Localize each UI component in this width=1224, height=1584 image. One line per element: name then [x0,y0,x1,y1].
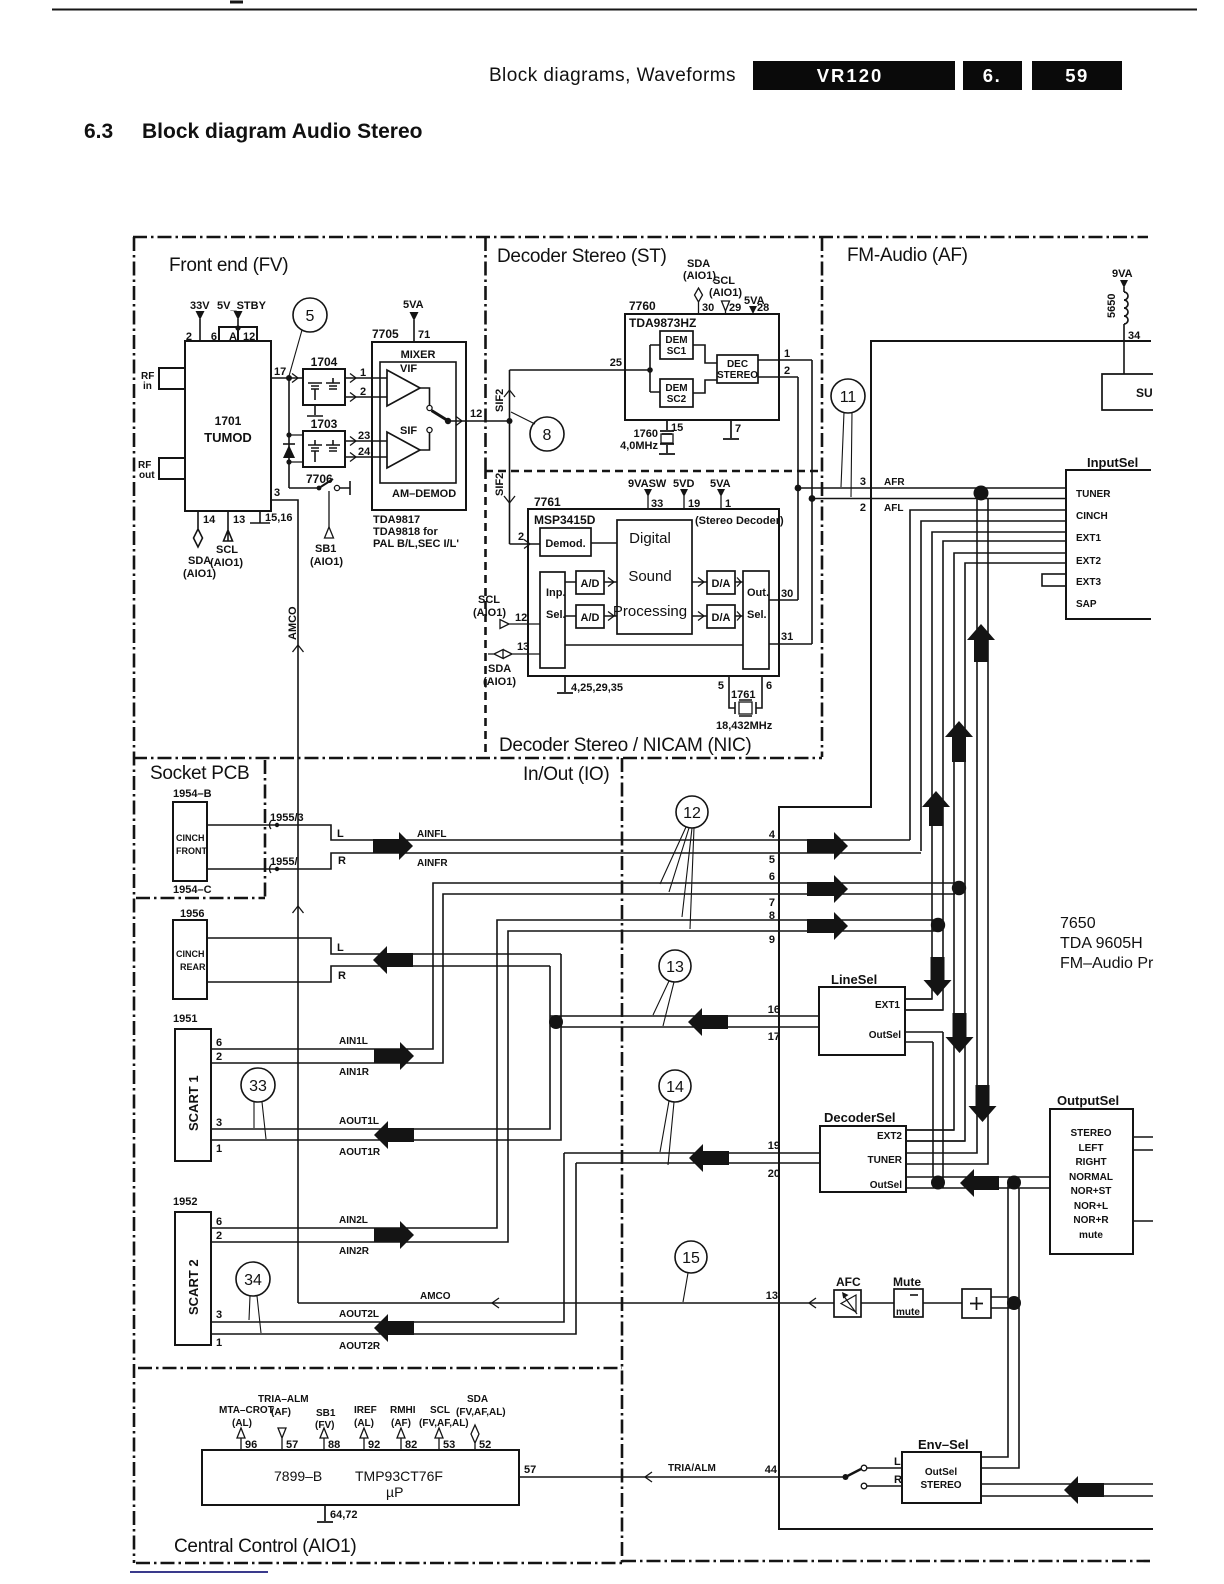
svg-text:57: 57 [286,1439,298,1451]
arrow AIN1 pair right [374,1042,414,1070]
wires plus to colF [991,1297,1019,1308]
svg-text:13: 13 [233,514,245,526]
block border Socket PCB bottom [136,897,265,900]
svg-text:EXT2: EXT2 [1076,556,1101,567]
svg-text:Digital: Digital [629,530,671,547]
wires OutputSel right stubs [1133,1137,1153,1221]
sub-block OutputSel [1050,1109,1133,1254]
wires DSP to D/A to Out.Sel [692,582,743,616]
svg-text:VIF: VIF [400,363,417,375]
svg-text:(FV,AF,AL): (FV,AF,AL) [456,1407,506,1418]
sub-block DSP [617,520,692,634]
wire TDA9873 pin2 out [758,376,798,378]
svg-text:2: 2 [518,531,524,543]
svg-text:(FV,AF,AL): (FV,AF,AL) [419,1418,469,1429]
svg-text:SCART 1: SCART 1 [186,1075,201,1131]
svg-text:PAL B/L,SEC I/L': PAL B/L,SEC I/L' [373,538,459,550]
svg-text:17: 17 [274,366,286,378]
wire node17 down to diode branch [288,378,290,488]
svg-text:NORMAL: NORMAL [1069,1172,1113,1183]
svg-text:33: 33 [249,1078,267,1095]
svg-text:6.: 6. [983,65,1001,86]
svg-text:7650: 7650 [1060,915,1096,932]
wire AOUT1L (pin3) [211,966,550,1129]
svg-text:AFC: AFC [836,1275,861,1289]
wire col-A cinch pair (AINF up to InputSel CINCH) [910,510,1066,840]
callout 8 [530,417,564,451]
pin 13 SDA(AIO1) [488,650,540,659]
svg-text:1955/: 1955/ [270,856,298,868]
svg-text:4,0MHz: 4,0MHz [620,440,658,452]
svg-text:7760: 7760 [629,299,656,313]
sub-block LineSel [819,987,905,1055]
svg-text:1: 1 [360,367,366,379]
pin15 crystal 1760 4,0MHz [659,420,675,454]
svg-text:1704: 1704 [311,355,338,369]
svg-text:7: 7 [735,423,741,435]
sub-block A/D upper [576,571,604,594]
svg-text:5650: 5650 [1106,294,1118,318]
svg-text:1: 1 [216,1337,222,1349]
svg-text:AFR: AFR [884,477,905,488]
sub-block DEM SC2 [660,379,693,407]
wire 1703 to SIF pin24 [345,456,387,458]
svg-text:44: 44 [765,1464,778,1476]
svg-text:(AF): (AF) [391,1418,411,1429]
sub-block D/A upper [707,571,735,594]
header badge VR120 [753,61,955,90]
node AIN2 join col-B [931,918,945,932]
block border Central Control bottom [136,1562,622,1565]
supply sub-block SU.. [1102,374,1153,410]
arrow AIN2 pair right [374,1221,414,1249]
svg-text:5VA: 5VA [403,299,424,311]
svg-text:FM–Audio Pr: FM–Audio Pr [1060,955,1154,972]
wire Sel control bus [565,644,743,646]
node AFL tap [809,495,816,502]
wire AIN2R (pin2) [211,931,938,1242]
callout 13 [659,950,691,982]
svg-text:18,432MHz: 18,432MHz [716,720,773,732]
wire AOUT2L (pin3) [211,1153,564,1322]
svg-text:4: 4 [769,829,776,841]
svg-text:6: 6 [216,1037,222,1049]
wire TUMOD pin17 to 1704 [271,377,303,379]
svg-text:DEM: DEM [665,383,687,394]
svg-text:13: 13 [766,1290,778,1302]
svg-text:16: 16 [768,1004,780,1016]
svg-text:STEREO: STEREO [1070,1128,1111,1139]
svg-text:30: 30 [781,588,793,600]
node AIN1 join col-C [952,881,966,895]
arrow down col-B [924,957,952,996]
uP pin 82 RMHI (AF) [397,1428,405,1450]
svg-text:LEFT: LEFT [1079,1143,1104,1154]
svg-text:7706: 7706 [306,472,333,486]
svg-text:(AIO1): (AIO1) [183,568,216,580]
svg-text:mute: mute [1079,1230,1103,1241]
svg-text:SC1: SC1 [667,346,687,357]
svg-text:15,16: 15,16 [265,512,293,524]
wire LineSel pins 16/17 rows [550,1015,819,1017]
svg-text:20: 20 [768,1168,780,1180]
svg-text:7761: 7761 [534,495,561,509]
svg-text:MSP3415D: MSP3415D [534,513,596,527]
arrow rows16/17 left [688,1008,728,1036]
block border ST/AF boundary [821,237,824,757]
arrow up col-C [945,721,973,762]
svg-text:64,72: 64,72 [330,1509,358,1521]
svg-text:1951: 1951 [173,1013,197,1025]
svg-text:SDA: SDA [488,663,511,675]
svg-text:SB1: SB1 [316,1408,336,1419]
switch Env-Sel input [867,1468,902,1486]
wire col-D tuner pair down to DecoderSel [906,488,977,1153]
svg-text:SCL: SCL [713,275,735,287]
svg-text:AIN1L: AIN1L [339,1036,368,1047]
svg-text:SDA: SDA [188,555,211,567]
arrow up col-B [922,791,950,826]
svg-text:AOUT1L: AOUT1L [339,1116,379,1127]
svg-text:33V: 33V [190,300,210,312]
svg-text:SCL: SCL [216,544,238,556]
svg-text:24: 24 [358,446,371,458]
wire SIF2 vertical (mixer out to pin25 and down to NIC) [509,370,511,544]
wire TDA9873 pin2 down to AFR to MSP pin30 [797,377,799,600]
arrow down col-D [969,1085,997,1122]
svg-text:DEM: DEM [665,335,687,346]
svg-text:SB1: SB1 [315,543,336,555]
sub-block plus (summer) [962,1289,991,1318]
uP pin 92 IREF (AL) [360,1428,368,1450]
svg-text:31: 31 [781,631,793,643]
sub-block AFC [834,1290,861,1317]
pin 12 SCL(AIO1) [500,620,540,629]
svg-text:SCL: SCL [478,594,500,606]
svg-text:TUMOD: TUMOD [204,430,252,445]
svg-text:CINCH: CINCH [1076,511,1108,522]
svg-text:7: 7 [769,897,775,909]
svg-text:A: A [229,331,237,343]
svg-text:Sel.: Sel. [546,609,566,621]
wire TRIA/ALM row (pin44) [519,1476,845,1478]
EXT3 input tab [1042,574,1066,586]
block border Central Control top [138,1367,622,1370]
svg-text:Socket PCB: Socket PCB [150,763,249,784]
svg-text:Demod.: Demod. [545,538,585,550]
node + box tap [1007,1296,1021,1310]
svg-text:SAP: SAP [1076,599,1097,610]
svg-text:3: 3 [860,476,866,488]
wire OutSel rows to OutputSel [906,1177,1051,1188]
svg-text:Block diagrams, Waveforms: Block diagrams, Waveforms [489,65,736,86]
svg-text:Sel.: Sel. [747,609,767,621]
SIF2 down arrow + label [504,496,515,503]
svg-text:Processing: Processing [613,603,687,620]
svg-text:OutSel: OutSel [869,1030,901,1041]
svg-text:Out.: Out. [747,587,769,599]
svg-text:88: 88 [328,1439,340,1451]
node pin25 bracket [647,367,653,373]
svg-text:7899–B: 7899–B [274,1468,322,1484]
svg-text:R: R [894,1474,902,1486]
node AFR/AFL to tuner-pair columns [974,486,989,501]
svg-text:17: 17 [768,1031,780,1043]
svg-text:TDA9818 for: TDA9818 for [373,526,439,538]
uP pin 57 TRIA-ALM (AF) [278,1428,286,1450]
svg-text:5V_STBY: 5V_STBY [217,300,267,312]
wire cinch front L (1955/3) [207,825,910,840]
svg-text:92: 92 [368,1439,380,1451]
svg-text:Decoder Stereo (ST): Decoder Stereo (ST) [497,246,667,267]
svg-text:STEREO: STEREO [717,370,758,381]
svg-text:STEREO: STEREO [920,1480,961,1491]
header badge 6. [963,61,1022,90]
callout 12 [676,796,708,828]
block border Socket PCB right [264,760,267,898]
node OutSel row colF [1007,1176,1021,1190]
svg-text:AFL: AFL [884,503,903,514]
sub-block Demod. [540,528,591,556]
uP pin 53 SCL (FV,AF,AL) [435,1428,443,1450]
svg-text:1955/3: 1955/3 [270,812,304,824]
pin 4,25,29,35 ground [557,676,573,693]
svg-text:5: 5 [718,680,724,692]
svg-text:30: 30 [702,302,714,314]
svg-text:3: 3 [216,1117,222,1129]
svg-text:7705: 7705 [372,327,399,341]
svg-text:OutSel: OutSel [925,1467,957,1478]
op-amp VIF [387,370,420,406]
svg-text:3: 3 [216,1309,222,1321]
node diode bottom [286,459,291,464]
ground under 1704 [307,405,323,416]
sub-block DEM SC1 [660,331,693,359]
block border AF bottom [622,1560,1150,1563]
svg-text:FRONT: FRONT [176,846,207,856]
svg-text:(AIO1): (AIO1) [709,287,742,299]
svg-text:AIN1R: AIN1R [339,1067,370,1078]
arrow rows19/20 left [689,1144,729,1172]
uP pin 88 SB1 (FV) [320,1428,328,1450]
svg-text:RMHI: RMHI [390,1405,416,1416]
wires LineSel EXT1 inputs [905,999,943,1010]
wire col-C ext2 pair [954,553,1066,888]
sub-block Mute [894,1289,923,1317]
svg-text:Front end (FV): Front end (FV) [169,255,288,276]
svg-text:6: 6 [769,871,775,883]
svg-text:1: 1 [725,498,731,510]
svg-text:Decoder Stereo / NICAM (NIC): Decoder Stereo / NICAM (NIC) [499,735,751,756]
wire pin34 to supply box [1123,324,1125,374]
wire MSP pin30 out [769,599,798,601]
svg-text:2: 2 [186,331,192,343]
filter 1703 [303,431,345,467]
svg-text:Env–Sel: Env–Sel [918,1437,969,1452]
svg-text:(AF): (AF) [271,1407,291,1418]
block border top (FV/ST/AF) [133,236,1148,239]
RF in tab [159,368,185,389]
svg-text:5: 5 [769,854,775,866]
svg-text:TUNER: TUNER [868,1155,903,1166]
svg-text:L: L [337,828,344,840]
svg-text:Sound: Sound [628,568,671,585]
callout 34 [236,1262,270,1296]
svg-text:9: 9 [769,934,775,946]
pin 33 9VASW [647,496,649,509]
wire SIF2 to MSP pin2 [510,543,541,545]
svg-text:13: 13 [517,641,529,653]
wire 1704 to VIF pin1 [345,377,387,379]
svg-text:D/A: D/A [712,612,731,624]
svg-text:VR120: VR120 [817,65,884,86]
arrow CINCH REAR pair left [373,946,413,974]
svg-text:InputSel: InputSel [1087,455,1138,470]
svg-text:Mute: Mute [893,1275,921,1289]
svg-text:(Stereo Decoder): (Stereo Decoder) [695,515,784,527]
svg-text:EXT3: EXT3 [1076,577,1101,588]
svg-text:82: 82 [405,1439,417,1451]
wire AIN2L (pin6) [211,920,938,1228]
svg-text:15: 15 [682,1250,700,1267]
svg-text:12: 12 [515,612,527,624]
svg-text:1: 1 [216,1143,222,1155]
page top rule [52,9,1197,11]
svg-text:RIGHT: RIGHT [1075,1157,1106,1168]
svg-text:SIF2: SIF2 [494,389,506,412]
pin7 ground [723,420,739,439]
svg-text:2: 2 [216,1051,222,1063]
wire cinch front R (1955/) [207,853,921,869]
stereo decoder 7760 TDA9873HZ [625,314,779,420]
inductor 5650 [1124,292,1128,324]
block border FV right / NIC left [484,237,487,471]
pin 71 supply 5VA [413,320,415,342]
arrow AINF pair right [373,832,413,860]
SIF2 up arrow + label [504,390,515,397]
wire AFR row (pin3) [798,487,1066,489]
wires Env-Sel outputs [981,1484,1153,1496]
svg-text:SCART 2: SCART 2 [186,1259,201,1315]
svg-text:34: 34 [244,1272,262,1289]
svg-text:TRIA–ALM: TRIA–ALM [258,1394,309,1405]
wire AOUT1R (pin1) [211,954,561,1140]
svg-text:1761: 1761 [731,689,755,701]
node CINCH-REAR/AOUT1 junction [549,1015,563,1029]
svg-text:AOUT2R: AOUT2R [339,1341,381,1352]
svg-text:(AIO1): (AIO1) [473,607,506,619]
svg-text:CINCH: CINCH [176,833,205,843]
diode [283,443,295,445]
svg-text:TMP93CT76F: TMP93CT76F [355,1468,443,1484]
svg-text:out: out [139,470,155,481]
svg-text:DecoderSel: DecoderSel [824,1110,896,1125]
wire AOUT2R (pin1) [211,1163,576,1334]
pin 30 SDA(AIO1) [695,288,703,314]
svg-text:SDA: SDA [687,258,710,270]
svg-text:14: 14 [203,514,216,526]
AMCO direction arrow lower [293,906,304,913]
node AFR tap [795,485,802,492]
TUMOD bottom pin 14 SDA(AIO1) [194,511,203,547]
svg-text:33: 33 [651,498,663,510]
svg-text:TUNER: TUNER [1076,489,1111,500]
svg-text:1: 1 [784,348,790,360]
callout 14 [659,1070,691,1102]
svg-text:Inp.: Inp. [546,587,566,599]
pin 19 5VD [683,496,685,509]
microcontroller 7899-B TMP93CT76F [202,1450,519,1505]
svg-text:(AIO1): (AIO1) [310,556,343,568]
svg-text:in: in [143,381,152,392]
wire 1704 to VIF pin2 [345,396,387,398]
pins 5/6 crystal 1761 [729,676,762,716]
svg-text:15: 15 [671,422,683,434]
svg-text:R: R [338,970,346,982]
svg-text:AMCO: AMCO [287,606,299,640]
svg-text:AOUT2L: AOUT2L [339,1309,379,1320]
callout 11 [831,379,865,413]
wire 1703 to SIF pin23 [345,440,387,442]
svg-text:12: 12 [243,331,255,343]
pin header box A/12 on TUMOD [219,327,257,342]
svg-text:NOR+L: NOR+L [1074,1201,1108,1212]
svg-text:8: 8 [543,427,552,444]
node diode top [286,432,291,437]
svg-text:1956: 1956 [180,908,204,920]
TUMOD bottom pin 13 SCL(AIO1) [224,511,233,541]
svg-text:CINCH: CINCH [176,949,205,959]
tuner 1701 TUMOD [185,341,271,511]
svg-text:2: 2 [784,365,790,377]
wire MSP pin31 out [769,643,812,645]
svg-text:AMCO: AMCO [420,1291,451,1302]
wire colF vertical pair down [981,1182,1008,1457]
svg-text:96: 96 [245,1439,257,1451]
svg-text:34: 34 [1128,330,1141,342]
svg-text:OutputSel: OutputSel [1057,1093,1119,1108]
svg-text:AM–DEMOD: AM–DEMOD [392,488,456,500]
svg-text:4,25,29,35: 4,25,29,35 [571,682,623,694]
arrow OutSel pair left [960,1169,999,1197]
svg-text:8: 8 [769,910,775,922]
svg-text:TDA9873HZ: TDA9873HZ [629,316,696,330]
svg-text:3: 3 [274,487,280,499]
svg-text:IREF: IREF [354,1405,377,1416]
callout 5 [293,298,327,332]
wires AFC-Mute-plus [861,1302,962,1304]
wire cinch rear R [207,966,550,982]
svg-text:1954–B: 1954–B [173,788,212,800]
arrow AOUT1 pair left [374,1121,414,1149]
svg-text:(AL): (AL) [354,1418,374,1429]
uP pin 64,72 ground [317,1505,333,1522]
svg-text:REAR: REAR [180,962,206,972]
svg-text:12: 12 [470,408,482,420]
svg-text:EXT1: EXT1 [1076,533,1101,544]
svg-text:52: 52 [479,1439,491,1451]
svg-text:AOUT1R: AOUT1R [339,1147,381,1158]
IF amp 7705 [372,342,466,510]
wire col-E LineSel OutSel down to OutSel row [905,1032,943,1188]
svg-text:TDA9817: TDA9817 [373,514,420,526]
header badge 59 [1032,61,1122,90]
sub-block Inp.Sel [540,572,565,668]
sub-block Out.Sel [743,571,769,669]
svg-text:TDA 9605H: TDA 9605H [1060,935,1143,952]
svg-text:2: 2 [860,502,866,514]
block border NIC top (dashed) [485,470,821,473]
